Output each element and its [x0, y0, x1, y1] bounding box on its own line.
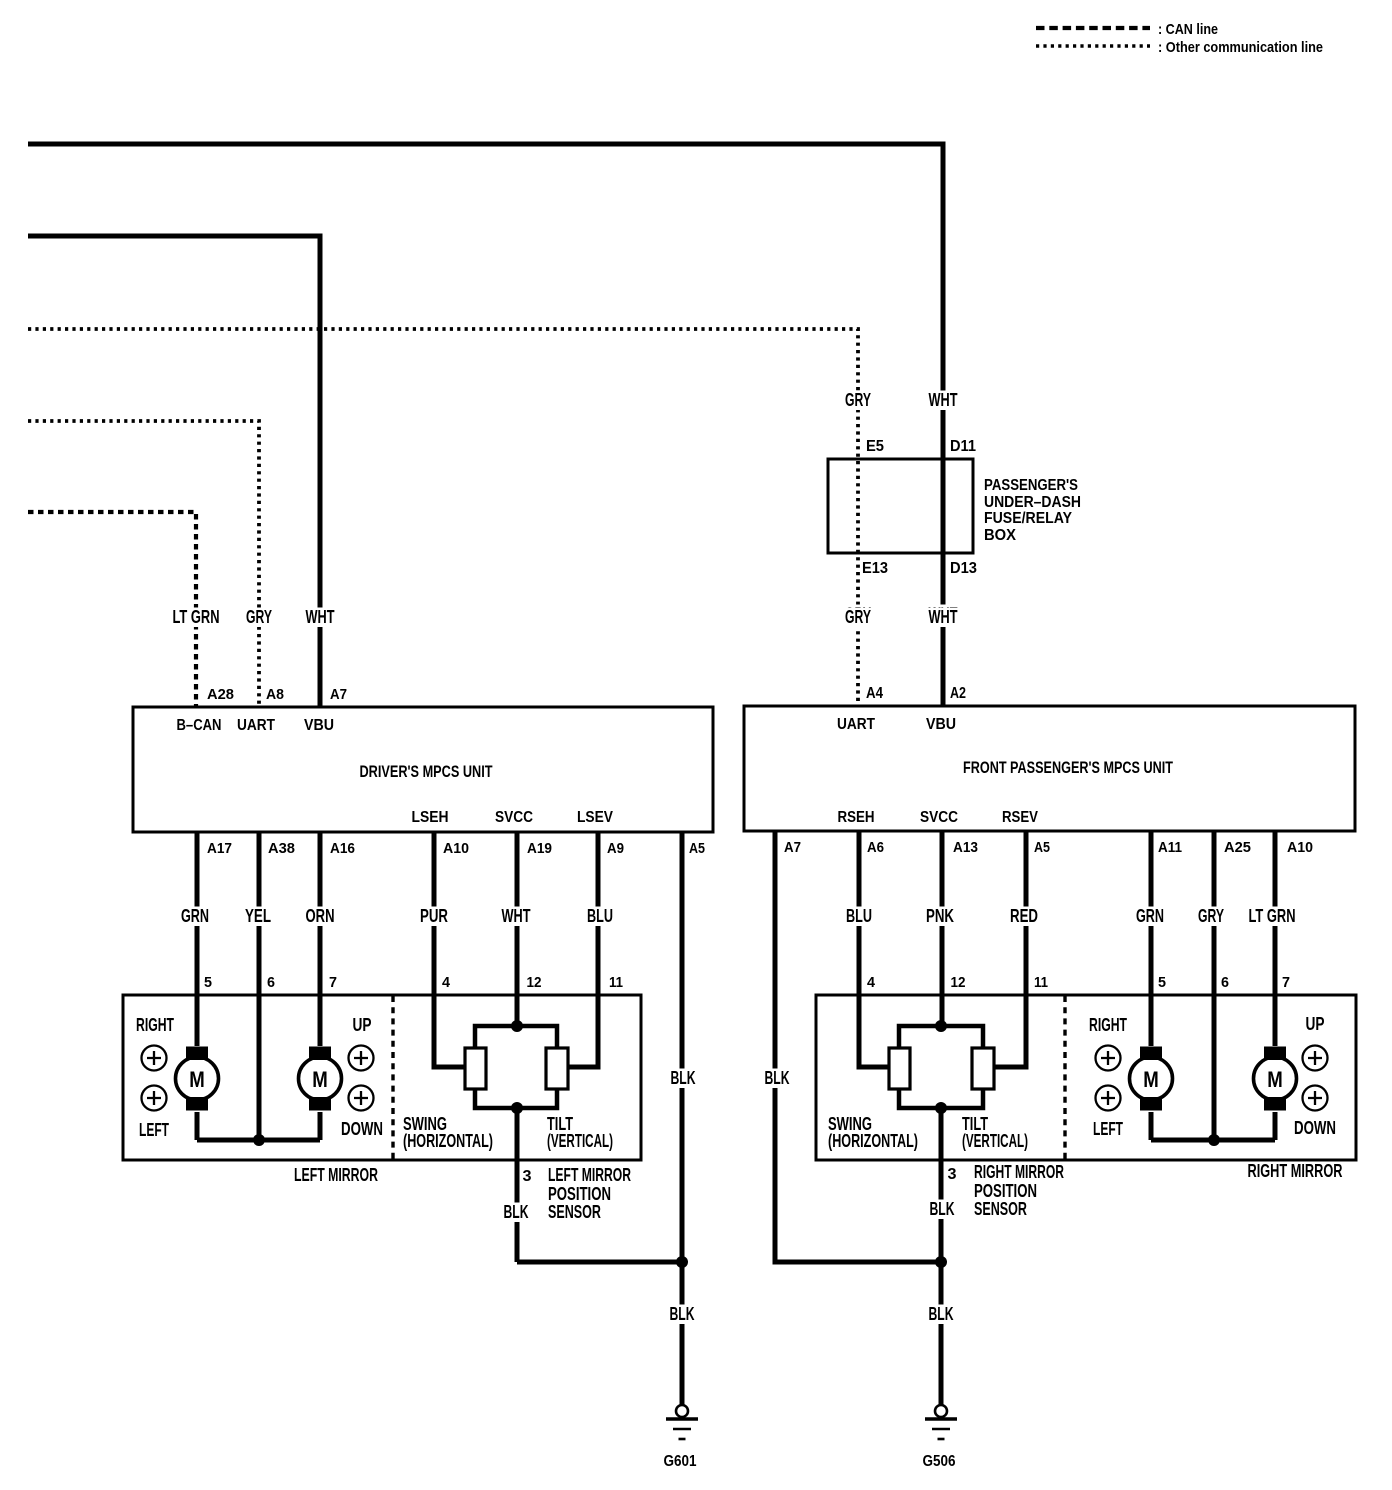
svg-text:(HORIZONTAL): (HORIZONTAL): [403, 1131, 493, 1151]
wire bottom common left mirror: [197, 1138, 320, 1143]
wire label GRY: [244, 608, 274, 628]
svg-text:BLK: BLK: [504, 1202, 529, 1222]
svg-text:A10: A10: [443, 841, 469, 857]
svg-text:12: 12: [527, 975, 542, 991]
svg-text:YEL: YEL: [245, 906, 271, 926]
svg-text:(VERTICAL): (VERTICAL): [962, 1131, 1028, 1151]
svg-text:A2: A2: [950, 685, 966, 702]
wire BLK to ground G506: [939, 1262, 944, 1405]
wire label PUR: [418, 907, 450, 927]
svg-text:PUR: PUR: [420, 906, 448, 926]
junction right pin6/common: [1208, 1134, 1220, 1146]
svg-text:ORN: ORN: [306, 906, 335, 926]
svg-text:11: 11: [1034, 975, 1048, 991]
wire WHT battery feed to fuse box D11: [28, 144, 943, 706]
right mirror box: [816, 995, 1356, 1160]
svg-text:WHT: WHT: [929, 607, 958, 627]
svg-text:A5: A5: [1034, 840, 1050, 856]
motor M right mirror swing: [1130, 1057, 1173, 1100]
wire WHT feed to driver unit A7: [28, 236, 320, 707]
right position sensor top bracket: [899, 1026, 983, 1048]
wire label GRY below fuse box: [843, 605, 873, 625]
wire label GRY right: [1196, 907, 1226, 927]
wire right sensor output pin 3: [939, 1108, 944, 1262]
passenger's under-dash fuse/relay box: [828, 459, 973, 553]
wire ORN A16 to left mirror motor pin 7: [318, 832, 323, 1046]
svg-text:3: 3: [948, 1166, 957, 1183]
wire BLK A7 ground wire: [775, 831, 941, 1262]
svg-text:A10: A10: [1287, 840, 1313, 856]
wire YEL A38 to left mirror pin 6: [257, 832, 262, 1140]
wire BLK A5 ground wire: [680, 832, 685, 1262]
svg-text:LEFT: LEFT: [139, 1120, 169, 1140]
direction symbol plus right mirror 1: [1096, 1046, 1121, 1071]
wire label WHT right unit: [927, 608, 960, 628]
wire label BLU: [844, 907, 874, 927]
wire label PNK: [924, 907, 956, 927]
svg-text:A7: A7: [330, 687, 347, 703]
wire BLU A6 to right sensor pin 4: [859, 831, 890, 1067]
direction symbol plus lower left: [142, 1086, 167, 1111]
svg-text:E13: E13: [862, 560, 888, 577]
right position sensor bottom bracket: [899, 1089, 983, 1108]
svg-text:SVCC: SVCC: [920, 809, 958, 826]
wire label GRN: [179, 907, 211, 927]
svg-text:GRY: GRY: [246, 607, 272, 627]
svg-text:LEFT: LEFT: [1093, 1119, 1123, 1139]
svg-text:A11: A11: [1158, 840, 1182, 856]
svg-text:DRIVER'S MPCS UNIT: DRIVER'S MPCS UNIT: [360, 762, 493, 781]
svg-text:WHT: WHT: [306, 607, 335, 627]
wire motor4 bottom: [1273, 1112, 1278, 1140]
svg-text:LEFT MIRROR: LEFT MIRROR: [548, 1165, 631, 1185]
right mirror separator: [1063, 996, 1066, 1159]
wire sensor ground join: [517, 1260, 682, 1265]
svg-text:G601: G601: [664, 1453, 697, 1470]
svg-text:A8: A8: [266, 687, 284, 703]
svg-text:6: 6: [1221, 975, 1229, 991]
svg-text:LSEH: LSEH: [412, 809, 449, 826]
junction sensor bottom: [511, 1102, 523, 1114]
junction right BLK ground join: [935, 1256, 947, 1268]
svg-text:A19: A19: [527, 841, 552, 857]
wire label BLK right sensor: [928, 1200, 957, 1220]
wire label LT GRN: [171, 608, 222, 628]
left sensor resistor swing: [465, 1048, 486, 1089]
svg-text:POSITION: POSITION: [974, 1181, 1037, 1201]
wire GRY A25 to right mirror pin 6: [1212, 831, 1217, 1140]
svg-text:12: 12: [951, 975, 966, 991]
svg-text:WHT: WHT: [502, 906, 531, 926]
svg-text:PASSENGER'S: PASSENGER'S: [984, 477, 1078, 494]
svg-text:DOWN: DOWN: [1294, 1118, 1336, 1138]
svg-text:UP: UP: [353, 1015, 372, 1035]
svg-text:D13: D13: [950, 560, 977, 577]
wire label YEL: [243, 907, 273, 927]
wire label LT GRN right: [1247, 907, 1298, 927]
svg-text:LT GRN: LT GRN: [173, 607, 220, 627]
svg-text:A5: A5: [689, 841, 705, 857]
right sensor resistor tilt: [972, 1048, 994, 1089]
svg-text:GRN: GRN: [181, 906, 209, 926]
wire label BLK right ground: [927, 1305, 956, 1325]
svg-text:5: 5: [1158, 975, 1166, 991]
svg-text:RIGHT: RIGHT: [136, 1015, 174, 1035]
wire label BLK on A7 wire: [763, 1069, 792, 1089]
direction symbol plus right mirror 3: [1303, 1046, 1328, 1071]
svg-text:A25: A25: [1224, 840, 1251, 856]
junction pin6/common: [253, 1134, 265, 1146]
wire PUR A10 to position sensor pin 4: [434, 832, 466, 1067]
wire label ORN: [304, 907, 337, 927]
wire label BLK on A5 wire: [669, 1069, 698, 1089]
fuse box label: [984, 477, 1081, 544]
svg-text:GRY: GRY: [845, 390, 871, 410]
svg-text:GRY: GRY: [1198, 906, 1224, 926]
svg-text:A13: A13: [953, 840, 978, 856]
wire motor1 bottom: [195, 1112, 200, 1140]
svg-text:A16: A16: [330, 841, 355, 857]
svg-text:11: 11: [609, 975, 623, 991]
wire label GRY above fuse box: [843, 391, 873, 411]
motor M left mirror swing: [176, 1057, 219, 1100]
direction symbol plus upper right: [349, 1046, 374, 1071]
svg-text:A9: A9: [607, 841, 624, 857]
svg-text:M: M: [1143, 1067, 1159, 1092]
svg-text:BLK: BLK: [671, 1068, 696, 1088]
svg-text:7: 7: [1282, 975, 1290, 991]
svg-text:A17: A17: [207, 841, 232, 857]
ground G601: [676, 1405, 688, 1417]
wire label RED: [1008, 907, 1040, 927]
svg-text:FUSE/RELAY: FUSE/RELAY: [984, 510, 1072, 527]
svg-text:DOWN: DOWN: [341, 1119, 383, 1139]
svg-text:BLU: BLU: [587, 906, 613, 926]
driver's MPCS unit U1: [133, 707, 713, 832]
svg-text:SENSOR: SENSOR: [548, 1202, 601, 1222]
left mirror separator: [391, 996, 394, 1159]
svg-text:UNDER–DASH: UNDER–DASH: [984, 494, 1081, 511]
svg-text:4: 4: [867, 975, 875, 991]
wire label WHT: [304, 608, 337, 628]
junction sensor top: [511, 1020, 523, 1032]
wire label WHT above fuse box: [927, 391, 960, 411]
wire BLK to ground G601: [680, 1262, 685, 1405]
direction symbol plus upper left: [142, 1046, 167, 1071]
svg-text:3: 3: [523, 1168, 532, 1185]
junction BLK ground join: [676, 1256, 688, 1268]
svg-text:A38: A38: [268, 841, 295, 857]
wire LT GRN A10 to right mirror motor pin 7: [1273, 831, 1278, 1046]
wire motor2 bottom: [318, 1112, 323, 1140]
svg-text:BLU: BLU: [846, 906, 872, 926]
svg-text:M: M: [189, 1067, 205, 1092]
junction right sensor top: [935, 1020, 947, 1032]
svg-text:RIGHT MIRROR: RIGHT MIRROR: [974, 1162, 1064, 1182]
junction right sensor bottom: [935, 1102, 947, 1114]
svg-text:4: 4: [442, 975, 450, 991]
svg-text:D11: D11: [950, 438, 976, 455]
wire label BLU: [585, 907, 615, 927]
svg-text:(VERTICAL): (VERTICAL): [547, 1131, 613, 1151]
svg-text:A4: A4: [866, 685, 883, 702]
svg-text:7: 7: [329, 975, 337, 991]
svg-text:WHT: WHT: [929, 390, 958, 410]
svg-text:PNK: PNK: [926, 906, 954, 926]
left position sensor top bracket: [475, 1026, 557, 1048]
svg-text:B–CAN: B–CAN: [177, 717, 222, 734]
direction symbol plus lower right: [349, 1086, 374, 1111]
svg-text:6: 6: [267, 975, 275, 991]
legend other communication line sample: [1036, 44, 1150, 48]
svg-text:RIGHT: RIGHT: [1089, 1015, 1127, 1035]
svg-text:E5: E5: [866, 438, 884, 455]
svg-text:LEFT MIRROR: LEFT MIRROR: [294, 1165, 378, 1185]
wire RED A5 to right sensor pin 11: [993, 831, 1026, 1067]
wire BLU A9 to position sensor pin 11: [567, 832, 598, 1067]
svg-text:M: M: [312, 1067, 328, 1092]
svg-text:(HORIZONTAL): (HORIZONTAL): [828, 1131, 918, 1151]
svg-text:UART: UART: [237, 717, 275, 734]
wire GRN A17 to left mirror motor pin 5: [195, 832, 200, 1046]
svg-text:M: M: [1267, 1067, 1283, 1092]
svg-text:BLK: BLK: [670, 1304, 695, 1324]
svg-text:A28: A28: [207, 687, 234, 703]
wire bottom common right mirror: [1151, 1138, 1275, 1143]
svg-text:LSEV: LSEV: [577, 809, 613, 826]
direction symbol plus right mirror 2: [1096, 1086, 1121, 1111]
wire WHT A19 to position sensor pin 12: [515, 832, 520, 1026]
left mirror box: [123, 995, 641, 1160]
svg-text:SVCC: SVCC: [495, 809, 533, 826]
right sensor resistor swing: [889, 1048, 910, 1089]
motor M right mirror tilt: [1254, 1057, 1297, 1100]
svg-text:RED: RED: [1010, 906, 1038, 926]
svg-text:UP: UP: [1306, 1014, 1325, 1034]
wire PNK A13 to right sensor pin 12: [940, 831, 945, 1026]
svg-text:G506: G506: [923, 1453, 956, 1470]
svg-text:BLK: BLK: [929, 1304, 954, 1324]
svg-text:BLK: BLK: [765, 1068, 790, 1088]
svg-text:RSEV: RSEV: [1002, 809, 1038, 826]
wire label BLK ground: [668, 1305, 697, 1325]
svg-text:SENSOR: SENSOR: [974, 1199, 1027, 1219]
svg-text:GRN: GRN: [1136, 906, 1164, 926]
svg-text:UART: UART: [837, 716, 875, 733]
left sensor resistor tilt: [546, 1048, 568, 1089]
direction symbol plus right mirror 4: [1303, 1086, 1328, 1111]
svg-text:A7: A7: [784, 840, 801, 856]
legend CAN line sample: [1036, 26, 1150, 30]
svg-text:RSEH: RSEH: [838, 809, 875, 826]
wire label GRY right unit: [843, 608, 873, 628]
svg-text:: CAN line: : CAN line: [1158, 21, 1218, 38]
svg-text:FRONT PASSENGER'S MPCS UNIT: FRONT PASSENGER'S MPCS UNIT: [963, 758, 1173, 777]
wire label BLK sensor: [502, 1203, 531, 1223]
svg-text:VBU: VBU: [926, 716, 956, 733]
wire label GRN right: [1134, 907, 1166, 927]
wire motor3 bottom: [1149, 1112, 1154, 1140]
left position sensor bottom bracket: [475, 1089, 557, 1108]
wire GRY UART feed to driver unit A8: [28, 421, 259, 707]
wire GRN A11 to right mirror motor pin 5: [1149, 831, 1154, 1046]
svg-text:LT GRN: LT GRN: [1249, 906, 1296, 926]
motor M left mirror tilt: [299, 1057, 342, 1100]
svg-text:A6: A6: [867, 840, 884, 856]
svg-text:: Other communication line: : Other communication line: [1158, 39, 1323, 56]
svg-text:VBU: VBU: [304, 717, 334, 734]
svg-text:BOX: BOX: [984, 527, 1016, 544]
svg-text:BLK: BLK: [930, 1199, 955, 1219]
wire label WHT below fuse box: [927, 605, 960, 625]
wire label WHT: [500, 907, 533, 927]
ground G506: [935, 1405, 947, 1417]
front passenger's MPCS unit U2: [744, 706, 1355, 831]
wire sensor output pin 3: [515, 1108, 520, 1262]
svg-text:GRY: GRY: [845, 607, 871, 627]
svg-text:RIGHT MIRROR: RIGHT MIRROR: [1248, 1161, 1343, 1181]
svg-text:POSITION: POSITION: [548, 1184, 611, 1204]
svg-text:5: 5: [204, 975, 212, 991]
wire GRY communication feed to fuse box E5: [28, 329, 858, 706]
wire LT GRN B-CAN feed to driver unit A28: [28, 512, 196, 707]
